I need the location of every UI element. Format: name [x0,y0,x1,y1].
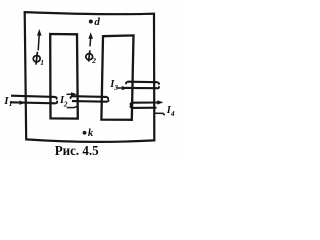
turn end hooks [55,97,57,100]
node k [83,131,87,135]
label phi2 [85,50,93,61]
core outer boundary [25,12,155,142]
svg-text:3: 3 [113,83,118,92]
wire: lower conductor [123,87,158,89]
label phi1 [33,52,41,65]
winding W2 on middle limb [67,94,109,107]
node d [89,20,93,24]
wire: upper conductor [11,96,55,97]
wire: lower lead going right [154,113,165,115]
wire: lower conductor [132,107,157,109]
current arrow I3 [122,86,128,90]
winding W4 on right limb (lower) [130,103,164,116]
wire: upper conductor [72,95,107,98]
flux arrow phi1 [37,29,42,50]
svg-text:d: d [94,16,100,28]
svg-text:Рис. 4.5: Рис. 4.5 [55,144,99,159]
turn end hooks [70,96,72,98]
svg-text:2: 2 [91,56,96,65]
wire: input lead [67,93,73,95]
current arrow I2 [71,92,77,96]
winding W3 on right limb (upper) [117,82,159,89]
turn end hooks [130,103,132,105]
wire: lower conductor [10,102,56,103]
wire: upper conductor [128,81,158,84]
right window [101,35,133,119]
wire: lower conductor [72,100,107,103]
svg-text:2: 2 [63,99,68,108]
wire: upper conductor with output lead [132,101,159,103]
left window [50,34,78,119]
wire: input lead [117,87,123,89]
winding W1 on left limb [10,96,57,104]
flux arrow phi2 [88,32,93,46]
turn end hooks [126,82,128,84]
current arrow I4 [157,100,163,104]
svg-text:1: 1 [40,58,44,67]
current arrow I1 [20,101,26,105]
svg-text:k: k [88,128,94,139]
wire: lower lead [67,106,78,108]
svg-text:1: 1 [9,99,13,108]
svg-text:4: 4 [170,109,175,118]
